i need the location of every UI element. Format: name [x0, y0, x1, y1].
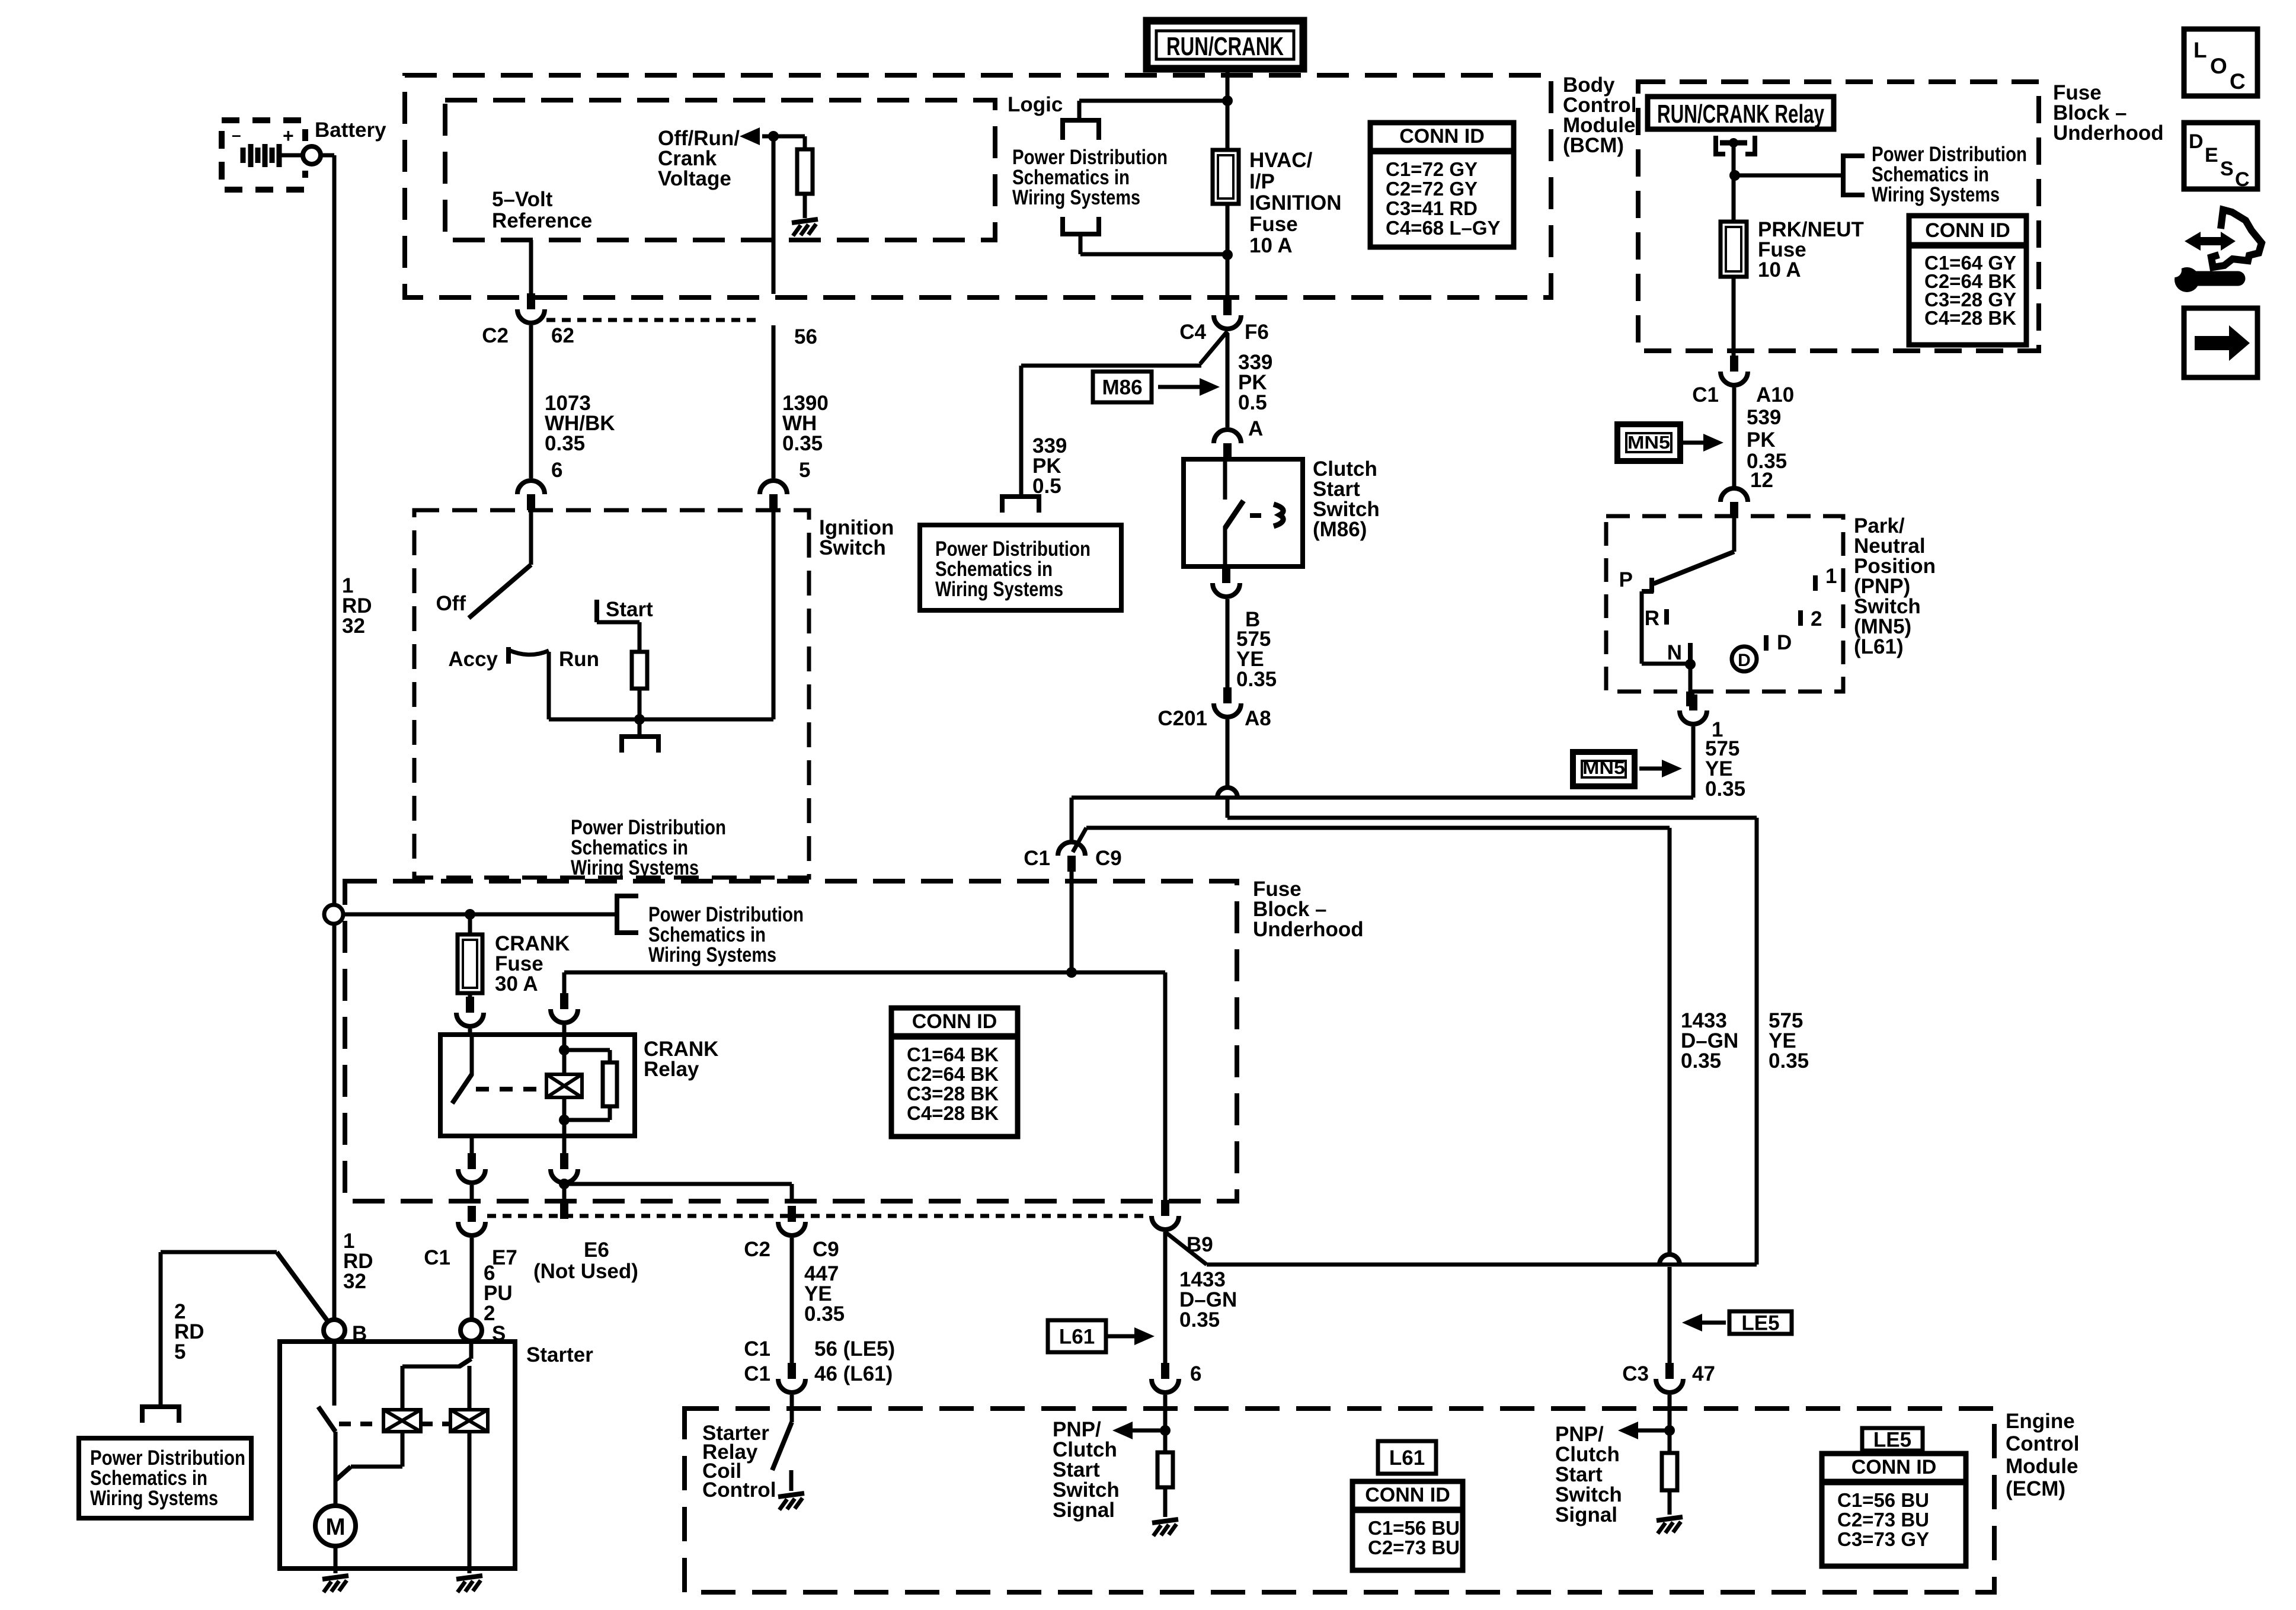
svg-text:L: L: [2193, 38, 2207, 62]
svg-text:C3=73 GY: C3=73 GY: [1837, 1528, 1929, 1550]
svg-text:1: 1: [1825, 565, 1837, 588]
svg-text:C3=28 BK: C3=28 BK: [907, 1083, 999, 1105]
svg-text:I/P: I/P: [1249, 170, 1275, 193]
svg-text:CONN ID: CONN ID: [1925, 219, 2010, 242]
svg-text:10 A: 10 A: [1249, 234, 1293, 257]
svg-text:C3: C3: [1622, 1362, 1649, 1385]
svg-text:46 (L61): 46 (L61): [814, 1362, 893, 1385]
svg-text:Engine: Engine: [2006, 1410, 2075, 1433]
svg-text:D: D: [1777, 631, 1792, 654]
svg-text:C2=73 BU: C2=73 BU: [1368, 1537, 1460, 1558]
svg-text:A8: A8: [1245, 707, 1271, 730]
svg-text:C9: C9: [813, 1238, 839, 1261]
svg-text:C1: C1: [744, 1362, 770, 1385]
svg-text:(BCM): (BCM): [1563, 134, 1624, 157]
svg-text:CONN ID: CONN ID: [1365, 1484, 1450, 1506]
svg-text:56 (LE5): 56 (LE5): [814, 1337, 895, 1361]
svg-text:C1: C1: [744, 1337, 770, 1361]
svg-text:Control: Control: [702, 1478, 776, 1502]
svg-text:M86: M86: [1102, 376, 1142, 399]
svg-text:Fuse: Fuse: [1249, 213, 1298, 236]
svg-text:0.35: 0.35: [804, 1302, 845, 1326]
svg-text:C: C: [2235, 168, 2250, 191]
svg-text:Underhood: Underhood: [1253, 918, 1364, 941]
svg-text:2: 2: [1811, 607, 1822, 630]
svg-text:C1=56 BU: C1=56 BU: [1368, 1517, 1460, 1539]
svg-text:F6: F6: [1245, 321, 1269, 344]
svg-text:–: –: [232, 126, 241, 144]
svg-text:C1=72 GY: C1=72 GY: [1386, 158, 1478, 180]
svg-text:C2=64 BK: C2=64 BK: [907, 1063, 999, 1085]
svg-text:CONN ID: CONN ID: [912, 1010, 997, 1033]
svg-text:C1: C1: [424, 1246, 450, 1269]
svg-text:B: B: [352, 1322, 367, 1345]
svg-text:Logic: Logic: [1008, 93, 1063, 116]
svg-text:0.5: 0.5: [1238, 391, 1267, 414]
svg-text:Relay: Relay: [644, 1058, 699, 1081]
svg-text:C1=56 BU: C1=56 BU: [1837, 1489, 1929, 1511]
svg-text:0.35: 0.35: [782, 432, 823, 455]
svg-text:Signal: Signal: [1053, 1499, 1115, 1522]
svg-text:HVAC/: HVAC/: [1249, 149, 1313, 172]
svg-text:Starter: Starter: [526, 1343, 593, 1366]
svg-text:32: 32: [342, 614, 365, 638]
svg-text:47: 47: [1692, 1362, 1715, 1385]
svg-text:Wiring Systems: Wiring Systems: [1872, 183, 2000, 206]
svg-text:0.35: 0.35: [1769, 1049, 1809, 1073]
svg-text:Run: Run: [559, 648, 599, 671]
svg-text:MN5: MN5: [1582, 757, 1625, 778]
svg-text:Switch: Switch: [819, 536, 886, 559]
svg-text:D: D: [1738, 651, 1751, 670]
svg-text:MN5: MN5: [1627, 432, 1670, 453]
svg-text:E7: E7: [492, 1246, 517, 1269]
svg-text:P: P: [1619, 568, 1633, 591]
svg-text:Voltage: Voltage: [658, 167, 731, 190]
svg-text:Module: Module: [2006, 1455, 2078, 1478]
svg-text:Wiring Systems: Wiring Systems: [935, 578, 1063, 601]
svg-text:56: 56: [794, 325, 817, 348]
svg-text:PK: PK: [1747, 428, 1776, 452]
svg-text:IGNITION: IGNITION: [1249, 191, 1342, 215]
svg-text:A10: A10: [1756, 383, 1794, 406]
svg-text:6: 6: [551, 459, 562, 482]
svg-text:Start: Start: [606, 598, 653, 621]
svg-text:12: 12: [1750, 469, 1773, 492]
svg-text:C1: C1: [1024, 847, 1050, 870]
svg-text:0.35: 0.35: [1705, 777, 1745, 801]
svg-text:5–Volt: 5–Volt: [492, 188, 553, 211]
svg-text:C9: C9: [1095, 847, 1122, 870]
svg-text:C1: C1: [1692, 383, 1719, 406]
svg-text:C2=72 GY: C2=72 GY: [1386, 178, 1478, 200]
svg-text:(M86): (M86): [1313, 518, 1367, 541]
svg-text:Battery: Battery: [315, 119, 386, 142]
svg-text:Signal: Signal: [1555, 1503, 1617, 1526]
svg-text:L61: L61: [1059, 1326, 1095, 1349]
svg-text:L61: L61: [1389, 1446, 1425, 1470]
svg-text:C4=68 L–GY: C4=68 L–GY: [1386, 217, 1501, 239]
svg-text:O: O: [2210, 54, 2227, 78]
svg-text:C4=28 BK: C4=28 BK: [1924, 307, 2016, 329]
svg-text:S: S: [492, 1322, 506, 1345]
svg-text:R: R: [1645, 607, 1659, 630]
svg-text:(ECM): (ECM): [2006, 1477, 2065, 1500]
svg-text:C201: C201: [1157, 707, 1207, 730]
svg-text:5: 5: [799, 459, 810, 482]
svg-text:D: D: [2189, 130, 2204, 153]
svg-text:M: M: [325, 1514, 345, 1540]
svg-text:0.5: 0.5: [1032, 475, 1061, 498]
svg-text:A: A: [1248, 417, 1263, 440]
svg-text:Wiring Systems: Wiring Systems: [571, 856, 699, 879]
svg-text:62: 62: [551, 324, 574, 347]
svg-text:+: +: [283, 125, 294, 146]
svg-text:C1=64 BK: C1=64 BK: [907, 1044, 999, 1065]
svg-text:5: 5: [174, 1340, 186, 1363]
svg-text:30 A: 30 A: [495, 972, 538, 996]
svg-text:LE5: LE5: [1741, 1312, 1779, 1335]
svg-text:0.35: 0.35: [1236, 668, 1277, 691]
svg-text:6: 6: [1190, 1362, 1201, 1385]
svg-text:CONN ID: CONN ID: [1851, 1456, 1937, 1478]
svg-text:S: S: [2220, 158, 2234, 180]
svg-text:C3=41 RD: C3=41 RD: [1386, 197, 1478, 219]
svg-text:C2: C2: [744, 1238, 770, 1261]
svg-text:Wiring Systems: Wiring Systems: [90, 1487, 218, 1510]
svg-text:0.35: 0.35: [1179, 1308, 1220, 1331]
svg-text:C2: C2: [482, 324, 509, 347]
svg-text:32: 32: [343, 1270, 366, 1293]
svg-text:Off: Off: [436, 592, 466, 615]
svg-text:539: 539: [1747, 406, 1781, 429]
svg-text:Accy: Accy: [448, 648, 498, 671]
svg-text:CONN ID: CONN ID: [1399, 125, 1485, 148]
svg-text:(Not Used): (Not Used): [533, 1260, 638, 1283]
svg-text:10 A: 10 A: [1758, 258, 1801, 281]
svg-text:RUN/CRANK Relay: RUN/CRANK Relay: [1657, 100, 1824, 129]
svg-text:Wiring Systems: Wiring Systems: [648, 943, 776, 966]
svg-text:0.35: 0.35: [545, 432, 585, 455]
svg-text:C: C: [2230, 69, 2246, 94]
svg-text:E: E: [2205, 144, 2218, 167]
svg-text:LE5: LE5: [1873, 1429, 1911, 1452]
svg-text:Underhood: Underhood: [2053, 121, 2164, 145]
svg-text:N: N: [1667, 641, 1682, 664]
svg-text:Control: Control: [2006, 1432, 2079, 1455]
svg-text:Wiring Systems: Wiring Systems: [1012, 186, 1140, 209]
svg-text:C4: C4: [1179, 321, 1206, 344]
svg-text:C4=28 BK: C4=28 BK: [907, 1102, 999, 1124]
svg-text:0.35: 0.35: [1681, 1049, 1721, 1073]
svg-text:(L61): (L61): [1854, 635, 1904, 658]
svg-text:E6: E6: [584, 1238, 609, 1262]
svg-text:Reference: Reference: [492, 209, 592, 232]
svg-text:RUN/CRANK: RUN/CRANK: [1166, 32, 1284, 61]
svg-text:C2=73 BU: C2=73 BU: [1837, 1509, 1929, 1531]
